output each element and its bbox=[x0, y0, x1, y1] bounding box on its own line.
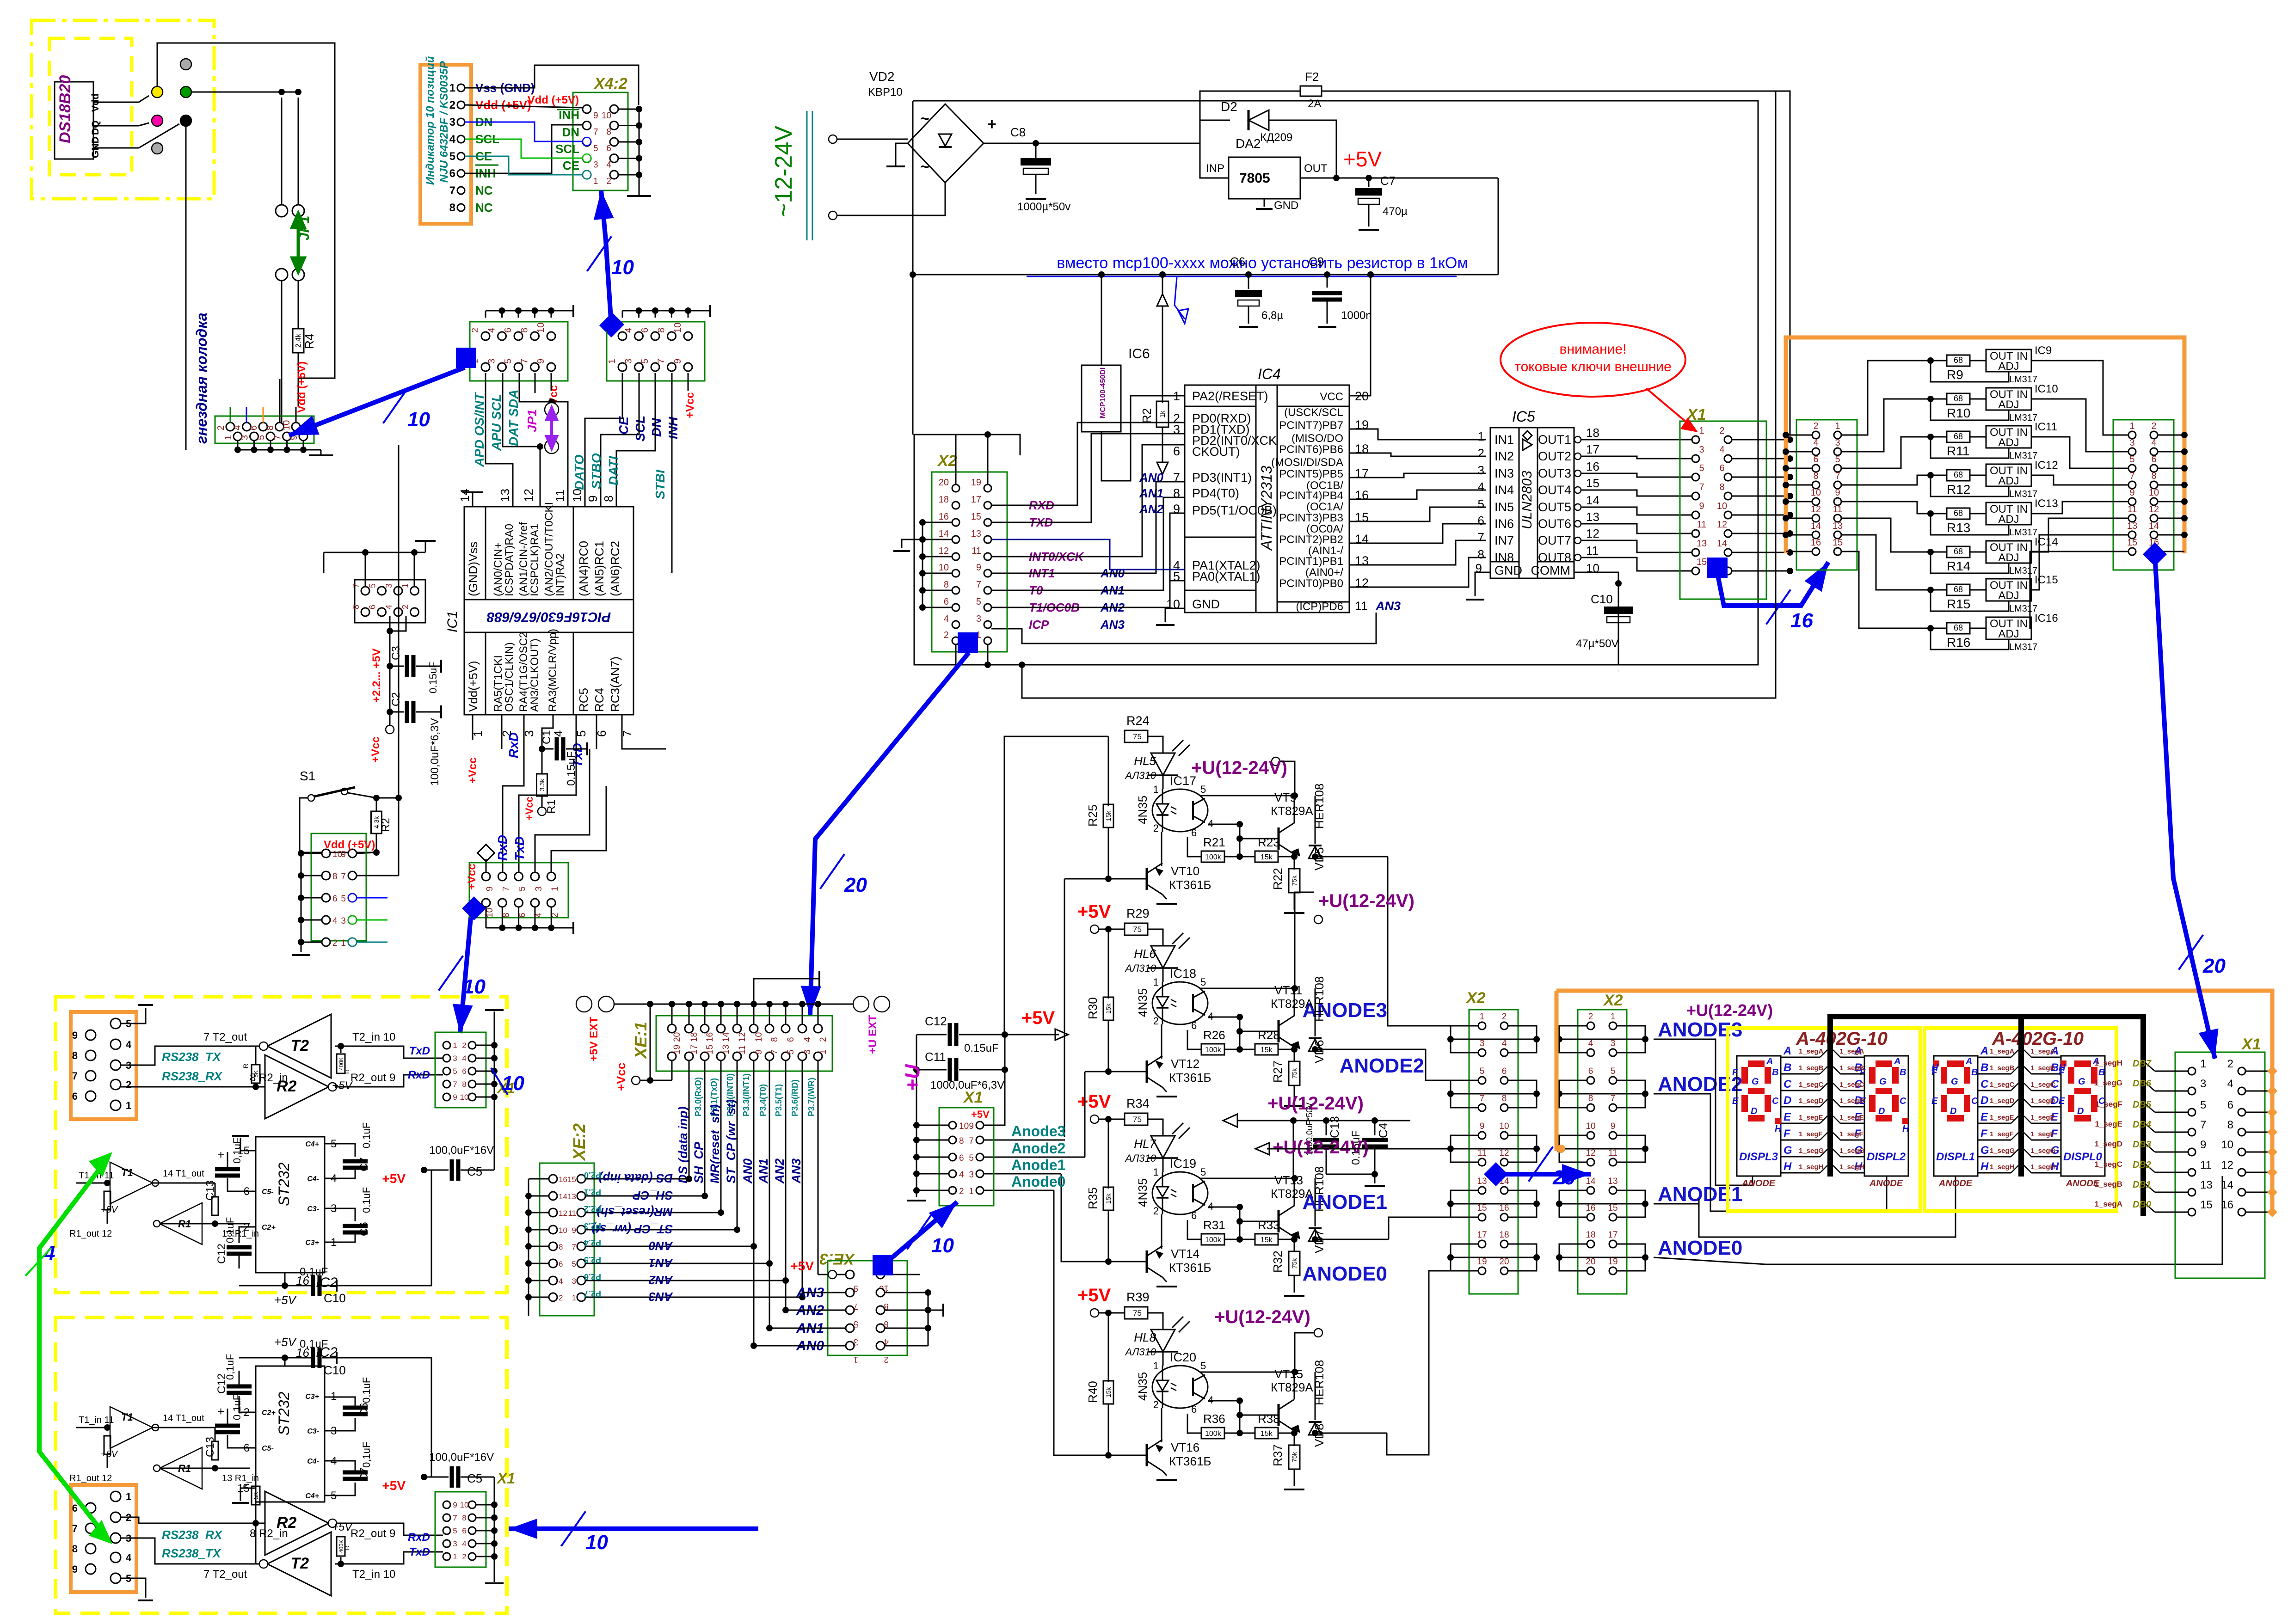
svg-text:КТ829А: КТ829А bbox=[1271, 997, 1313, 1011]
resistor R25 15k bbox=[1108, 736, 1109, 806]
wire opto pin2 to VT16 collector bbox=[1161, 1408, 1162, 1442]
svg-text:1: 1 bbox=[818, 1049, 828, 1054]
svg-text:IN1: IN1 bbox=[1494, 433, 1514, 447]
svg-text:2: 2 bbox=[332, 938, 338, 948]
svg-text:R: R bbox=[343, 1069, 351, 1074]
wire SDA to JP1 top bbox=[519, 373, 552, 402]
svg-text:7: 7 bbox=[2129, 471, 2134, 481]
display DISPL3 bbox=[1737, 1056, 1781, 1176]
svg-text:H: H bbox=[1902, 1124, 1909, 1134]
resistor R2 1k optional bbox=[1159, 271, 1166, 278]
svg-text:3: 3 bbox=[1478, 463, 1484, 477]
svg-text:+5V: +5V bbox=[274, 1335, 297, 1349]
connector above IC1 (right) bbox=[607, 322, 705, 381]
transistor VT16 КТ361Б bbox=[1108, 1455, 1147, 1456]
svg-text:~12-24V: ~12-24V bbox=[770, 126, 797, 217]
svg-text:17: 17 bbox=[1586, 442, 1599, 456]
svg-text:1_segE: 1_segE bbox=[1839, 1114, 1864, 1121]
small resistors T1 R1 bbox=[76, 1427, 107, 1428]
svg-text:14: 14 bbox=[721, 1032, 731, 1042]
svg-text:3.3k: 3.3k bbox=[538, 778, 546, 791]
svg-text:2: 2 bbox=[944, 630, 949, 640]
svg-text:9: 9 bbox=[341, 850, 346, 859]
gate T2 transmitter bbox=[267, 1532, 331, 1596]
svg-text:3: 3 bbox=[2129, 438, 2134, 448]
diode VD7 HER108 bbox=[1312, 1236, 1318, 1243]
svg-text:4: 4 bbox=[332, 916, 338, 926]
svg-text:OUT1: OUT1 bbox=[1538, 433, 1571, 447]
wire LM317 IC16 output to right bbox=[2030, 552, 2128, 628]
wire anode bases chain bbox=[1064, 878, 1108, 880]
svg-text:13: 13 bbox=[2200, 1179, 2213, 1191]
svg-text:7: 7 bbox=[657, 359, 667, 364]
svg-text:C12: C12 bbox=[215, 1244, 228, 1264]
svg-text:8: 8 bbox=[2151, 471, 2156, 481]
wire X1 pin9 +5V up bbox=[984, 1070, 1005, 1125]
svg-text:18: 18 bbox=[1499, 1230, 1509, 1240]
svg-text:ANODE1: ANODE1 bbox=[1303, 1191, 1387, 1213]
svg-text:8: 8 bbox=[462, 1080, 466, 1089]
wire opto pin5 to +U node bbox=[1200, 1372, 1295, 1373]
svg-text:VT13: VT13 bbox=[1274, 1173, 1303, 1187]
svg-text:10: 10 bbox=[460, 1093, 469, 1102]
svg-text:+5V EXT: +5V EXT bbox=[588, 1017, 600, 1061]
svg-text:1_segD: 1_segD bbox=[1990, 1097, 2015, 1105]
svg-text:8: 8 bbox=[332, 872, 338, 882]
svg-text:1: 1 bbox=[126, 1491, 131, 1502]
svg-text:11: 11 bbox=[568, 1209, 576, 1218]
regulator IC12 LM317 bbox=[1986, 464, 2031, 486]
wire X1 display pin DB5 bbox=[2155, 1112, 2188, 1113]
bus node blue diamond right bbox=[600, 313, 624, 337]
small resistors T1 R1 bbox=[76, 1183, 107, 1184]
wire green pad to JP1 bus bbox=[191, 92, 298, 93]
connector above IC1 (left) bbox=[470, 322, 568, 381]
optocoupler IC19 4N35 bbox=[1152, 1172, 1208, 1214]
svg-text:R12: R12 bbox=[1947, 482, 1970, 496]
svg-text:1: 1 bbox=[853, 1354, 858, 1364]
wire JP1 right leg bbox=[298, 98, 299, 205]
wire X4:2 right bus bbox=[618, 109, 639, 110]
svg-text:ADJ: ADJ bbox=[1998, 360, 2019, 373]
regulator IC9 LM317 bbox=[1986, 349, 2031, 372]
wire DS18B20 GND to black pad bbox=[93, 124, 179, 148]
svg-text:10: 10 bbox=[282, 420, 292, 430]
svg-text:6: 6 bbox=[1173, 444, 1180, 458]
bus arrow 20 from LM317 to X1 display bbox=[2155, 554, 2215, 1059]
svg-text:12: 12 bbox=[1811, 504, 1821, 515]
svg-text:+2.2... +5V: +2.2... +5V bbox=[370, 649, 383, 703]
optocoupler IC17 4N35 bbox=[1152, 789, 1208, 832]
svg-text:0,1uF: 0,1uF bbox=[361, 1377, 372, 1403]
pad magenta bbox=[152, 115, 163, 126]
svg-text:18: 18 bbox=[939, 495, 949, 505]
svg-text:4: 4 bbox=[944, 614, 949, 624]
svg-text:DB2: DB2 bbox=[2133, 1160, 2151, 1170]
svg-text:APU SCL: APU SCL bbox=[489, 394, 504, 451]
svg-text:16: 16 bbox=[705, 1032, 715, 1042]
svg-text:+U(12-24V): +U(12-24V) bbox=[1267, 1093, 1364, 1114]
svg-text:9: 9 bbox=[969, 1121, 974, 1131]
svg-text:C7: C7 bbox=[1380, 174, 1396, 188]
wire X2 left bus bbox=[923, 522, 952, 523]
svg-text:HL8: HL8 bbox=[1134, 1330, 1156, 1344]
svg-text:RA4(T1G/OSC2: RA4(T1G/OSC2 bbox=[517, 632, 530, 712]
svg-text:R22: R22 bbox=[1271, 868, 1285, 890]
svg-text:11: 11 bbox=[738, 1045, 747, 1054]
svg-text:IC16: IC16 bbox=[2035, 612, 2058, 625]
svg-text:1_segF: 1_segF bbox=[1990, 1130, 2014, 1138]
resistor R28 15k bbox=[1255, 1044, 1278, 1055]
svg-text:4: 4 bbox=[606, 160, 611, 170]
svg-text:19: 19 bbox=[971, 478, 981, 488]
svg-text:13: 13 bbox=[721, 1045, 731, 1054]
svg-text:G: G bbox=[1752, 1077, 1759, 1087]
svg-text:1: 1 bbox=[593, 177, 598, 186]
wire yellow pad loop to R4 top bbox=[157, 43, 335, 378]
svg-text:9: 9 bbox=[72, 1030, 78, 1041]
svg-text:PCINT0)PB0: PCINT0)PB0 bbox=[1279, 577, 1343, 590]
svg-text:7 T2_out: 7 T2_out bbox=[203, 1031, 247, 1043]
svg-text:1_segH: 1_segH bbox=[2095, 1059, 2122, 1067]
svg-text:3: 3 bbox=[593, 160, 598, 170]
wire SCL to JP1 bottom bbox=[503, 373, 540, 447]
svg-text:20: 20 bbox=[939, 478, 949, 488]
ground socket bbox=[320, 450, 322, 455]
svg-text:AN3: AN3 bbox=[789, 1158, 803, 1184]
wire LM317 IC9 input from left bbox=[1841, 361, 1931, 435]
bus arrow 10 serial to RS232 bbox=[460, 918, 471, 1033]
wire X1 anode left bus bbox=[916, 1125, 949, 1126]
resistor R1 3.3k bbox=[541, 749, 543, 774]
svg-text:D: D bbox=[1784, 1094, 1791, 1107]
svg-text:0.15uF: 0.15uF bbox=[427, 662, 439, 694]
svg-text:IN3: IN3 bbox=[1494, 466, 1514, 480]
svg-text:1_segA: 1_segA bbox=[1799, 1048, 1824, 1055]
svg-text:7: 7 bbox=[593, 128, 598, 137]
capacitor C12 0.1uF bbox=[239, 1227, 256, 1243]
connector XE:3 box bbox=[828, 1261, 907, 1355]
svg-text:6: 6 bbox=[559, 1260, 563, 1269]
svg-text:5: 5 bbox=[1200, 976, 1206, 988]
sensor DS18B20 body bbox=[55, 82, 93, 159]
svg-text:MR(reset_sh): MR(reset_sh) bbox=[597, 1205, 673, 1219]
resistor R36 100k bbox=[1187, 1414, 1201, 1433]
svg-text:ICSPCLK)RA1: ICSPCLK)RA1 bbox=[529, 524, 541, 596]
svg-text:VT12: VT12 bbox=[1171, 1057, 1199, 1071]
svg-text:VCC: VCC bbox=[1320, 391, 1343, 403]
svg-text:R11: R11 bbox=[1947, 444, 1969, 458]
svg-text:1_segE: 1_segE bbox=[2095, 1120, 2122, 1128]
svg-text:PA2(/RESET): PA2(/RESET) bbox=[1192, 389, 1268, 403]
svg-text:4: 4 bbox=[1588, 1039, 1593, 1048]
svg-text:B: B bbox=[1784, 1061, 1791, 1074]
svg-text:4: 4 bbox=[462, 1539, 466, 1548]
capacitor C4 0.15uF bbox=[1374, 1121, 1376, 1135]
svg-text:A: A bbox=[1894, 1056, 1900, 1066]
svg-text:DB5: DB5 bbox=[2133, 1100, 2152, 1110]
wire +Vcc stub left bbox=[551, 373, 552, 391]
channel A +U terminal bbox=[1272, 757, 1280, 766]
wires mate colored bbox=[357, 897, 387, 899]
LED HL7 АЛ310 bbox=[1151, 1136, 1175, 1158]
svg-text:5: 5 bbox=[2200, 1099, 2206, 1111]
capacitor C5 100uF bbox=[421, 1167, 427, 1173]
wire IC5 outputs to X1 bbox=[1581, 439, 1692, 441]
svg-text:OUT4: OUT4 bbox=[1538, 483, 1571, 497]
svg-text:IC1: IC1 bbox=[445, 611, 460, 632]
svg-text:X2: X2 bbox=[1603, 992, 1623, 1009]
svg-text:68: 68 bbox=[1954, 355, 1963, 365]
svg-text:9: 9 bbox=[593, 111, 598, 121]
wire socket bottom bus to ground bbox=[237, 441, 239, 450]
LED HL8 АЛ310 bbox=[1151, 1330, 1175, 1352]
channel HL7 +5V feed bbox=[1090, 1115, 1099, 1123]
svg-text:SCL: SCL bbox=[633, 416, 647, 441]
wire +5V down to rail bbox=[1498, 178, 1499, 275]
label +Vcc bottom bbox=[386, 725, 394, 734]
display DISPL0 bbox=[2061, 1056, 2105, 1176]
svg-text:COMM: COMM bbox=[1531, 564, 1570, 577]
resistor R37 75k bbox=[1294, 1433, 1295, 1446]
svg-text:20: 20 bbox=[1499, 1257, 1509, 1267]
svg-text:DB6: DB6 bbox=[2133, 1079, 2152, 1089]
svg-text:INP: INP bbox=[1206, 162, 1224, 175]
svg-text:5: 5 bbox=[341, 894, 346, 904]
svg-text:1_segF: 1_segF bbox=[1799, 1130, 1823, 1138]
svg-text:11: 11 bbox=[1477, 1148, 1487, 1158]
svg-text:C5: C5 bbox=[467, 1164, 482, 1178]
segment wires display group 2 bbox=[1989, 1057, 2011, 1058]
wire CE teal bbox=[465, 156, 583, 175]
svg-text:5: 5 bbox=[1611, 1066, 1616, 1076]
svg-text:14: 14 bbox=[1717, 539, 1727, 549]
svg-text:1: 1 bbox=[449, 82, 455, 94]
wire X2 to IC4 stair bbox=[991, 423, 1185, 505]
svg-text:C3-: C3- bbox=[307, 1205, 319, 1213]
wire ADJ loop IC12 bbox=[1931, 475, 2009, 496]
svg-text:R14: R14 bbox=[1947, 559, 1970, 573]
svg-text:+Vcc: +Vcc bbox=[466, 864, 478, 890]
svg-text:+5V: +5V bbox=[790, 1259, 814, 1273]
label +5V EXT bbox=[576, 996, 592, 1012]
regulator IC16 LM317 bbox=[1986, 617, 2031, 639]
wire LM317 IC12 input from left bbox=[1841, 475, 1931, 485]
svg-text:6: 6 bbox=[1813, 454, 1818, 465]
svg-text:12: 12 bbox=[559, 1209, 567, 1218]
svg-text:C4+: C4+ bbox=[305, 1492, 319, 1500]
svg-text:3: 3 bbox=[969, 1170, 974, 1180]
svg-text:IC4: IC4 bbox=[1258, 366, 1281, 382]
wire XE:1 pin1 column to XE:3 +5V bbox=[818, 1060, 819, 1275]
svg-text:ANODE1: ANODE1 bbox=[1658, 1183, 1742, 1206]
svg-text:H: H bbox=[1980, 1160, 1989, 1173]
svg-text:14: 14 bbox=[1586, 1177, 1596, 1186]
svg-text:XE:3: XE:3 bbox=[819, 1250, 855, 1268]
svg-text:KBP10: KBP10 bbox=[868, 86, 903, 98]
svg-text:(ICP)PD6: (ICP)PD6 bbox=[1296, 601, 1343, 613]
wire IC1 pin14 to ground bbox=[472, 492, 474, 507]
svg-text:+U(12-24V): +U(12-24V) bbox=[1191, 758, 1287, 778]
svg-text:RC5: RC5 bbox=[577, 688, 590, 712]
svg-text:P3.7(/WR): P3.7(/WR) bbox=[807, 1078, 816, 1116]
svg-text:1000µ*50v: 1000µ*50v bbox=[1017, 201, 1070, 213]
jumper JP1 arrow bbox=[292, 214, 304, 272]
svg-text:15k: 15k bbox=[1261, 1430, 1273, 1438]
diode VD8 HER108 bbox=[1312, 1430, 1318, 1436]
svg-text:HER108: HER108 bbox=[1312, 1360, 1326, 1405]
wire X2 frame bottom join bbox=[1019, 662, 1025, 668]
svg-text:1_segD: 1_segD bbox=[1839, 1097, 1864, 1105]
svg-text:1_segH: 1_segH bbox=[1799, 1163, 1823, 1171]
frame yellow display box 2 bbox=[1925, 1028, 2116, 1211]
LED HL5 АЛ310 bbox=[1151, 753, 1175, 775]
wire ICSP top bus bbox=[365, 552, 366, 587]
svg-text:G: G bbox=[1980, 1144, 1989, 1157]
svg-text:16: 16 bbox=[1586, 460, 1599, 473]
svg-text:HL6: HL6 bbox=[1134, 947, 1156, 961]
svg-text:RC3(AN7): RC3(AN7) bbox=[608, 656, 622, 712]
wire LM317 IC13 output to right bbox=[2031, 502, 2128, 514]
svg-text:MCP100-450DI: MCP100-450DI bbox=[1099, 368, 1107, 418]
frame loop around IC4/X2 bbox=[913, 101, 1758, 665]
svg-text:C10: C10 bbox=[1591, 592, 1613, 606]
svg-text:1_segH: 1_segH bbox=[2030, 1163, 2055, 1171]
svg-text:9: 9 bbox=[453, 1501, 457, 1509]
svg-text:6: 6 bbox=[1719, 463, 1724, 473]
bus node XE:3 blue square bbox=[873, 1255, 893, 1275]
svg-text:5: 5 bbox=[256, 435, 266, 440]
svg-text:PD4(T0): PD4(T0) bbox=[1192, 486, 1239, 500]
svg-text:D: D bbox=[1980, 1094, 1988, 1107]
svg-text:5: 5 bbox=[2129, 454, 2134, 465]
svg-text:1_segC: 1_segC bbox=[2095, 1160, 2122, 1169]
svg-text:LM317: LM317 bbox=[2009, 451, 2037, 461]
wire emitter to anode bbox=[1315, 1049, 1426, 1050]
svg-text:F: F bbox=[1980, 1128, 1988, 1140]
resistor R12 68 bbox=[1927, 472, 1934, 478]
svg-text:10: 10 bbox=[2149, 488, 2159, 498]
svg-text:LM317: LM317 bbox=[2009, 642, 2037, 652]
svg-text:HL7: HL7 bbox=[1134, 1137, 1156, 1151]
orange right bus display bbox=[1556, 991, 2272, 1212]
svg-text:R25: R25 bbox=[1086, 804, 1100, 827]
svg-text:6: 6 bbox=[449, 167, 455, 180]
svg-text:2: 2 bbox=[1153, 822, 1159, 834]
svg-text:7: 7 bbox=[1611, 1094, 1616, 1103]
svg-text:INH: INH bbox=[666, 417, 680, 439]
svg-text:C10: C10 bbox=[324, 1291, 346, 1305]
svg-text:R35: R35 bbox=[1086, 1187, 1100, 1209]
svg-text:5: 5 bbox=[453, 1067, 457, 1076]
svg-text:R: R bbox=[242, 1064, 249, 1068]
svg-text:~: ~ bbox=[920, 110, 929, 128]
svg-text:7: 7 bbox=[976, 580, 981, 590]
resistor R23 15k bbox=[1255, 851, 1278, 862]
svg-text:IC19: IC19 bbox=[1170, 1157, 1196, 1171]
svg-text:ADJ: ADJ bbox=[1998, 475, 2019, 487]
svg-text:75k: 75k bbox=[1291, 1258, 1298, 1269]
regulator IC14 LM317 bbox=[1986, 541, 2031, 563]
gate T1 small bbox=[110, 1162, 153, 1204]
svg-text:9: 9 bbox=[1699, 501, 1704, 511]
svg-text:DS18B20: DS18B20 bbox=[56, 75, 74, 143]
wire IC5 GND bbox=[1475, 572, 1490, 596]
svg-text:GND: GND bbox=[1274, 199, 1298, 212]
svg-text:8: 8 bbox=[72, 1050, 78, 1061]
resistor R10 68 bbox=[1927, 396, 1934, 402]
resistor R4 bbox=[298, 281, 299, 329]
svg-text:1_segF: 1_segF bbox=[2095, 1100, 2122, 1109]
gate R2 receiver bbox=[265, 1491, 329, 1555]
svg-text:Anode1: Anode1 bbox=[1011, 1157, 1065, 1173]
svg-text:8: 8 bbox=[265, 425, 276, 430]
wire IC4 pin5 bbox=[1170, 580, 1185, 582]
svg-text:11: 11 bbox=[2200, 1159, 2212, 1171]
svg-text:0,1uF: 0,1uF bbox=[361, 1122, 372, 1148]
svg-text:+: + bbox=[217, 1404, 224, 1418]
wires XE:1 bottom columns down bbox=[689, 1060, 690, 1179]
svg-text:E: E bbox=[1732, 1096, 1739, 1106]
wire S1 loop left bbox=[300, 798, 376, 852]
svg-text:1_segD: 1_segD bbox=[2095, 1140, 2122, 1148]
svg-text:15: 15 bbox=[2200, 1199, 2213, 1211]
svg-text:3: 3 bbox=[534, 886, 544, 891]
svg-text:C5-: C5- bbox=[262, 1188, 274, 1196]
wire S1 right to node bbox=[348, 793, 376, 798]
svg-text:12: 12 bbox=[1717, 520, 1727, 530]
svg-text:G: G bbox=[2078, 1077, 2085, 1087]
svg-text:6: 6 bbox=[1191, 827, 1197, 839]
wire R2 to Vdd pin9 bbox=[357, 852, 376, 853]
svg-text:IC18: IC18 bbox=[1170, 967, 1196, 981]
svg-text:R: R bbox=[343, 1545, 351, 1550]
wire ADJ loop IC13 bbox=[1931, 514, 2009, 535]
wire opto pin4 to base bbox=[1208, 1401, 1240, 1433]
resistor R40 15k bbox=[1108, 1313, 1109, 1382]
svg-text:3: 3 bbox=[2200, 1078, 2206, 1090]
svg-text:STBI: STBI bbox=[653, 469, 667, 499]
svg-text:12: 12 bbox=[1586, 1148, 1595, 1158]
svg-text:1: 1 bbox=[1153, 1360, 1159, 1372]
svg-text:ICSPDAT)RA0: ICSPDAT)RA0 bbox=[503, 524, 516, 596]
svg-text:1_segH: 1_segH bbox=[1839, 1163, 1864, 1171]
svg-text:H: H bbox=[1784, 1160, 1792, 1173]
svg-text:17: 17 bbox=[1608, 1230, 1617, 1240]
resistor R15 68 bbox=[1927, 587, 1934, 593]
pad yellow bbox=[152, 86, 163, 98]
svg-text:4: 4 bbox=[1719, 445, 1724, 455]
svg-text:DISPL2: DISPL2 bbox=[1867, 1151, 1906, 1163]
svg-text:1: 1 bbox=[1173, 389, 1180, 403]
+U rail channel C bbox=[1223, 1114, 1237, 1127]
wire opto pin2 to VT10 collector bbox=[1161, 832, 1162, 866]
svg-text:1: 1 bbox=[1480, 1012, 1485, 1022]
connector left of LM317 (16pin) bbox=[1796, 420, 1857, 570]
svg-text:~: ~ bbox=[920, 158, 929, 176]
svg-text:1_segB: 1_segB bbox=[1839, 1064, 1864, 1072]
svg-text:1_segA: 1_segA bbox=[1839, 1048, 1864, 1055]
svg-text:C: C bbox=[1772, 1096, 1779, 1106]
svg-text:2A: 2A bbox=[1308, 98, 1321, 110]
svg-text:0,1uF: 0,1uF bbox=[300, 1266, 328, 1278]
svg-text:S1: S1 bbox=[300, 769, 315, 783]
svg-text:1: 1 bbox=[341, 938, 346, 948]
svg-text:14: 14 bbox=[559, 1192, 567, 1201]
wire X1 display pin DB6 bbox=[2155, 1091, 2188, 1092]
svg-text:4N35: 4N35 bbox=[1136, 988, 1150, 1017]
svg-text:10: 10 bbox=[536, 323, 546, 333]
